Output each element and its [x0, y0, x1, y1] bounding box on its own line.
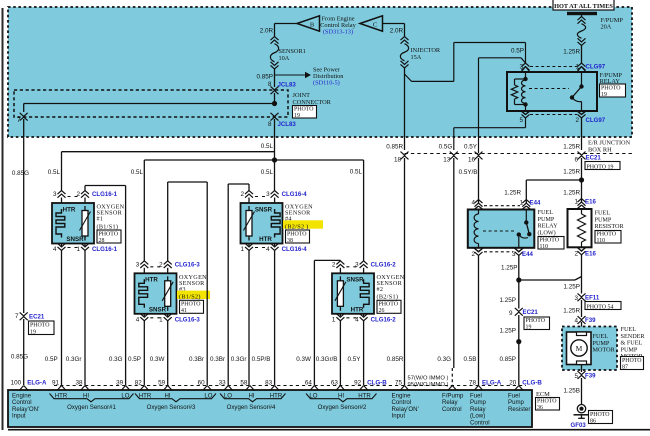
svg-text:0.5P: 0.5P	[45, 356, 58, 363]
svg-text:4: 4	[574, 317, 578, 324]
CLG97 pin 2 chevrons	[578, 114, 586, 118]
relay coil inductor	[522, 80, 526, 104]
svg-text:CLG16-3: CLG16-3	[175, 316, 201, 323]
sensor 1 top connector dashes	[68, 196, 80, 198]
label HOT AT ALL TIMES box	[553, 0, 614, 10]
svg-text:CLG16-1: CLG16-1	[92, 246, 118, 253]
sensor 3 top connector dashes	[150, 266, 161, 268]
svg-text:PHOTO: PHOTO	[99, 231, 119, 237]
svg-text:8: 8	[268, 81, 272, 88]
svg-text:CLG16-3: CLG16-3	[175, 261, 201, 268]
svg-text:91: 91	[52, 379, 60, 386]
EF11 pin 3 chevrons	[578, 293, 586, 297]
photo box 86 (ground)	[589, 411, 613, 424]
svg-text:HTR: HTR	[270, 393, 283, 400]
wire sensor3 LO staple to ECM 60	[167, 182, 169, 262]
joint connector pin 8 top chevrons	[271, 86, 279, 90]
relay low internal dashed link	[483, 230, 515, 232]
relay low coil	[478, 210, 480, 215]
sensor 4 highlight	[283, 220, 323, 228]
svg-text:PHOTO: PHOTO	[526, 318, 546, 324]
svg-text:0.3Gr: 0.3Gr	[66, 356, 82, 363]
wire sensor2 HI drop to ECM 63	[339, 321, 341, 385]
svg-text:38: 38	[75, 379, 83, 386]
svg-text:0.5B: 0.5B	[464, 356, 477, 363]
svg-text:PHOTO: PHOTO	[537, 399, 557, 405]
svg-text:(B1/S2): (B1/S2)	[179, 294, 201, 301]
svg-text:58: 58	[240, 379, 248, 386]
ECM pin 92 terminal	[359, 386, 368, 391]
svg-text:PHOTO: PHOTO	[287, 231, 307, 237]
ECM pin 33 terminal	[224, 386, 233, 391]
svg-text:LO: LO	[204, 393, 212, 400]
sensor 3 top pin 3 chevron	[140, 261, 148, 265]
sensor 2 heater element	[360, 279, 369, 308]
wire sensor3 HTR drop to ECM 82	[143, 321, 145, 385]
ECM connector dashed boundary	[54, 385, 526, 387]
svg-text:0.5L: 0.5L	[261, 169, 274, 176]
svg-text:8: 8	[268, 121, 272, 128]
svg-text:PHOTO: PHOTO	[590, 412, 610, 418]
wire resistor pin2 to motor trunk	[581, 255, 583, 294]
sensor 3 bottom pin 1 chevron	[167, 314, 169, 317]
svg-text:HTR: HTR	[259, 236, 272, 243]
svg-text:4: 4	[266, 246, 270, 253]
svg-text:Oxygen Sensor#3: Oxygen Sensor#3	[147, 404, 196, 411]
svg-text:E44: E44	[522, 251, 533, 258]
relay low switch blade	[526, 223, 529, 235]
svg-text:60: 60	[198, 379, 206, 386]
svg-text:38: 38	[287, 238, 293, 244]
sensor3 group bracket	[135, 394, 216, 402]
sensor 4 bottom pin 4 chevron	[274, 244, 276, 247]
svg-text:78: 78	[469, 379, 477, 386]
svg-text:CLG-B: CLG-B	[522, 380, 542, 387]
svg-text:0.3Br: 0.3Br	[210, 356, 225, 363]
svg-text:83: 83	[265, 379, 273, 386]
wire 0.5L feed vertical (JC8 to sensor4)	[274, 160, 276, 191]
photo box 19 (EC21-9)	[524, 317, 550, 330]
svg-text:0.85P: 0.85P	[500, 356, 516, 363]
joint connector box (dashed)	[14, 90, 288, 117]
svg-text:HI: HI	[338, 393, 344, 400]
photo box 19 (joint connector)	[293, 106, 317, 119]
svg-text:F39: F39	[585, 373, 596, 380]
svg-text:Resister: Resister	[508, 406, 530, 413]
svg-text:26: 26	[379, 308, 385, 314]
svg-text:0.5P: 0.5P	[511, 48, 524, 55]
svg-text:57(W/O IMMO ): 57(W/O IMMO )	[408, 376, 449, 382]
E44 pin3 chevron	[514, 248, 523, 252]
svg-text:HI: HI	[83, 393, 89, 400]
svg-text:#2: #2	[377, 286, 384, 293]
svg-text:18: 18	[394, 157, 402, 164]
svg-text:1.25P: 1.25P	[500, 327, 516, 334]
wire node to ECM 20	[518, 342, 520, 385]
sensor 4 top connector dashes	[255, 196, 269, 198]
wire injector fuse down to pin 18	[404, 68, 406, 151]
F39 pin 4 chevrons	[578, 316, 586, 320]
svg-text:6: 6	[574, 157, 578, 164]
wire joint connector pin7 down	[23, 119, 25, 313]
ECM pin 59 terminal	[163, 386, 172, 391]
wire sensor4 LO staple to ECM 33	[248, 184, 250, 191]
svg-text:0.5Y: 0.5Y	[464, 143, 478, 150]
wire injector branch to 0.5P feed	[405, 74, 412, 81]
svg-text:4: 4	[53, 246, 57, 253]
svg-text:CLG97: CLG97	[586, 64, 606, 71]
svg-text:HOT AT ALL TIMES: HOT AT ALL TIMES	[554, 3, 613, 10]
wire sensor2 LO staple to ECM 64	[339, 260, 341, 261]
relay coil top node	[523, 77, 527, 81]
wire EF11 to F39 pin4	[581, 300, 583, 317]
svg-text:1.25R: 1.25R	[563, 190, 580, 197]
svg-text:19: 19	[526, 324, 532, 330]
F/PUMP relay box	[507, 72, 597, 111]
svg-text:(B1/S1): (B1/S1)	[97, 223, 119, 230]
fuel pump resistor box	[568, 209, 592, 247]
svg-text:82: 82	[135, 379, 143, 386]
E44 pin4 chevron	[475, 200, 483, 204]
relay internal dashed link	[529, 88, 569, 90]
junction relay low output node	[516, 277, 521, 282]
ground GF03 symbol	[577, 405, 585, 413]
svg-text:LO: LO	[121, 393, 129, 400]
photo box 28 (sensor 1)	[97, 230, 121, 243]
svg-text:HTR: HTR	[139, 393, 152, 400]
wire pin16 to fuel pump relay low pin4	[478, 158, 480, 204]
svg-text:2: 2	[575, 117, 579, 124]
sensor 4 sensing element	[248, 206, 250, 211]
sensor 1 top pin 2 chevron	[81, 191, 89, 195]
relay switch blade	[572, 87, 582, 98]
photo box 87 (motor)	[621, 357, 644, 370]
photo box 110 (resistor)	[595, 231, 621, 244]
svg-text:1.25R: 1.25R	[563, 143, 580, 150]
oxygen sensor #4 box	[241, 203, 283, 244]
ECM pin 20 terminal	[514, 386, 523, 391]
svg-text:87: 87	[622, 364, 628, 370]
sensor2 group bracket	[306, 394, 377, 402]
E/R junction box dashed boundary	[405, 153, 633, 155]
sensor 2 bottom pin 1 chevron	[339, 314, 341, 317]
wire fuse SENSOR1 to joint connector pin 8	[274, 69, 276, 88]
svg-text:0.5L: 0.5L	[350, 169, 363, 176]
svg-text:86: 86	[590, 418, 596, 424]
wire sensor3 HI drop to ECM 59	[167, 321, 169, 385]
svg-text:2: 2	[240, 191, 244, 198]
wire F39-5 to ground	[581, 378, 583, 404]
svg-text:28: 28	[99, 238, 105, 244]
ECM pin 38 terminal	[81, 386, 90, 391]
svg-text:0.5Y/B: 0.5Y/B	[459, 169, 478, 176]
svg-text:3: 3	[53, 191, 57, 198]
svg-text:2.0R: 2.0R	[390, 28, 404, 35]
sensor 4 heater element	[271, 209, 280, 238]
svg-text:EF11: EF11	[585, 295, 600, 302]
svg-text:7: 7	[17, 117, 21, 124]
wire from triangle B to sensor fuse	[275, 23, 298, 25]
relay low connector top dashes	[484, 205, 520, 207]
svg-text:EC21: EC21	[586, 155, 602, 162]
svg-text:1.25R: 1.25R	[563, 169, 580, 176]
svg-text:C: C	[373, 22, 377, 29]
svg-text:SNSR: SNSR	[149, 306, 167, 313]
svg-text:PHOTO: PHOTO	[379, 302, 399, 308]
svg-text:CLG16-1: CLG16-1	[92, 191, 118, 198]
junction 1.25R node	[579, 177, 584, 182]
see power distribution tap	[275, 74, 306, 76]
sensor 2 top pin 2 chevron	[336, 261, 344, 265]
fuel pump motor terminal bottom	[577, 361, 587, 365]
sensor 2 top pin 3 chevron	[360, 261, 368, 265]
svg-text:HTR: HTR	[63, 206, 76, 213]
sensor 2 sensing element	[339, 276, 341, 281]
svg-text:F39: F39	[585, 317, 596, 324]
svg-text:HTR: HTR	[145, 277, 158, 284]
sensor 3 sensing element	[167, 276, 169, 281]
wire relay low pin3 to junction	[518, 256, 520, 281]
sensor 1 sensing element	[84, 206, 86, 211]
wire relay pin5 to EC21 pin13	[525, 118, 527, 128]
wire relay pin2 down to EC21 pin 6	[581, 118, 583, 150]
svg-text:SNSR: SNSR	[346, 277, 364, 284]
wire F39-4 into motor box	[581, 322, 583, 332]
relay switch common wire	[581, 72, 583, 86]
svg-text:19: 19	[601, 92, 607, 98]
svg-text:5: 5	[574, 373, 578, 380]
svg-text:PHOTO 54: PHOTO 54	[587, 304, 614, 310]
svg-text:63: 63	[331, 379, 339, 386]
svg-text:Input: Input	[392, 413, 406, 420]
ECM pin 78 terminal	[474, 386, 483, 391]
svg-text:4: 4	[471, 200, 475, 207]
svg-text:RESISTOR: RESISTOR	[595, 223, 625, 230]
svg-text:(B2/S2 ): (B2/S2 )	[285, 223, 309, 230]
svg-text:2: 2	[574, 250, 578, 257]
svg-text:20: 20	[509, 379, 517, 386]
CLG97 pin 1 chevrons	[578, 63, 586, 67]
svg-text:(SD313-13): (SD313-13)	[323, 28, 353, 35]
svg-text:7: 7	[15, 313, 19, 320]
svg-text:0.85G: 0.85G	[11, 353, 28, 360]
wire joint connector pin8 to band edge	[274, 119, 276, 160]
svg-text:E16: E16	[585, 199, 596, 206]
svg-text:1.25P: 1.25P	[564, 284, 580, 291]
svg-text:Oxygen Sensor#4: Oxygen Sensor#4	[227, 404, 276, 411]
E16 pin1 chevron	[578, 199, 586, 203]
svg-text:1.25P: 1.25P	[501, 265, 517, 272]
relay switch throw link	[572, 98, 582, 102]
svg-text:Control: Control	[442, 406, 462, 413]
wire sensor2 HTR drop to ECM 92	[363, 321, 365, 385]
svg-text:(B2/S1): (B2/S1)	[377, 294, 399, 301]
sensor 4 top pin 2 chevron	[245, 191, 253, 195]
page left edge line	[2, 8, 4, 430]
E44 pin2 chevron	[474, 248, 483, 252]
svg-text:3: 3	[266, 191, 270, 198]
EC21 pin 9 chevrons	[515, 308, 523, 312]
ECM pin 57/95 terminal (W/O IMMO)	[448, 386, 457, 391]
svg-text:0.3Gr/B: 0.3Gr/B	[316, 356, 338, 363]
svg-text:1.25R: 1.25R	[563, 49, 580, 56]
relay low connector bottom dashes	[484, 251, 513, 253]
relay low switch pole	[517, 232, 521, 236]
svg-text:PHOTO 19: PHOTO 19	[587, 164, 614, 170]
ECM pin 63 terminal	[336, 386, 345, 391]
node fuel pump sense	[516, 339, 521, 344]
svg-text:4: 4	[136, 316, 140, 323]
E44 pin1 chevron	[522, 200, 530, 204]
svg-text:LO: LO	[309, 393, 317, 400]
connector CLG97 bottom dashed line	[530, 114, 577, 116]
connector triangle C (from engine control relay)	[360, 16, 383, 31]
svg-text:LO: LO	[224, 393, 232, 400]
svg-text:PHOTO: PHOTO	[294, 107, 314, 113]
svg-text:EC21: EC21	[523, 309, 539, 316]
wire junction to EC21 pin 9	[518, 280, 520, 309]
svg-text:3: 3	[574, 295, 578, 302]
ECM pin 100 terminal	[19, 386, 28, 391]
wire sensor1 LO staple to ECM 39	[84, 186, 86, 192]
photo box 41 (sensor 3)	[180, 300, 204, 313]
sensor 3 bottom connector dashes	[150, 317, 161, 319]
sensor 1 bottom pin 1 chevron	[84, 244, 86, 247]
sensor 1 bottom pin 4 chevron	[61, 244, 63, 247]
ECM pin 58 terminal	[245, 386, 254, 391]
svg-text:0.3Gr: 0.3Gr	[231, 356, 247, 363]
wire bus bar to fuse	[581, 15, 583, 17]
svg-text:3: 3	[136, 261, 140, 268]
svg-text:15A: 15A	[411, 54, 422, 61]
relay coil bottom node	[523, 102, 527, 106]
sensor 1 heater element	[56, 209, 65, 238]
oxygen sensor #3 box	[135, 273, 177, 314]
svg-text:19: 19	[294, 113, 300, 119]
svg-text:ELG-A: ELG-A	[27, 380, 47, 387]
wire EC21 pin7 to ECM 100	[23, 319, 25, 385]
svg-text:CLG16-2: CLG16-2	[371, 261, 397, 268]
CLG97 pin 5 chevrons	[522, 114, 530, 118]
svg-text:HTR: HTR	[351, 306, 364, 313]
wire EC21-6 to junction	[581, 158, 583, 203]
svg-text:41: 41	[181, 308, 187, 314]
sensor 1 top pin 3 chevron	[58, 191, 66, 195]
photo box 19 (f/pump relay)	[600, 84, 626, 97]
svg-text:0.85R: 0.85R	[387, 356, 404, 363]
relay low switch contact top	[524, 220, 528, 224]
svg-text:0.5G: 0.5G	[439, 143, 453, 150]
EC21 pin 7 chevrons	[20, 312, 28, 316]
fuel pump motor M circle	[571, 340, 587, 356]
svg-text:BOX RH: BOX RH	[588, 146, 612, 153]
wire sensor4 HTR drop to ECM 83	[274, 251, 276, 386]
svg-text:PHOTO: PHOTO	[540, 238, 560, 244]
sensor1 group bracket	[50, 394, 134, 402]
connector CLG97 top dashed line	[530, 66, 577, 68]
svg-text:CLG16-2: CLG16-2	[371, 316, 397, 323]
fuel pump motor terminal top	[577, 332, 587, 336]
sensor4 group bracket	[220, 394, 286, 402]
svg-text:1: 1	[332, 316, 336, 323]
joint connector pin 7 chevrons	[20, 113, 28, 117]
svg-text:JCL83: JCL83	[278, 121, 297, 128]
photo box 19 (EC21-6)	[585, 162, 620, 170]
svg-text:E16: E16	[585, 250, 596, 257]
wire from triangle C to injector fuse	[383, 23, 405, 25]
svg-text:59: 59	[158, 379, 166, 386]
svg-text:CLG16-4: CLG16-4	[282, 191, 308, 198]
svg-text:HI: HI	[164, 393, 170, 400]
fuse SENSOR1 10A	[271, 37, 279, 41]
wire junction to relay low pin1	[526, 179, 581, 181]
relay pin3 entry fork	[521, 67, 530, 73]
relay coil feed wire	[525, 72, 527, 79]
svg-text:PHOTO: PHOTO	[622, 358, 642, 364]
svg-text:1.25R: 1.25R	[563, 307, 580, 314]
svg-text:64: 64	[305, 379, 313, 386]
svg-text:Oxygen Sensor#2: Oxygen Sensor#2	[318, 404, 367, 411]
sensor 2 bottom pin 4 chevron	[363, 314, 365, 317]
sensor 3 top pin 2 chevron	[164, 261, 172, 265]
relay low switch contact right	[527, 232, 531, 236]
svg-text:0.3Br: 0.3Br	[189, 356, 204, 363]
svg-text:1.25R: 1.25R	[504, 190, 521, 197]
svg-text:19: 19	[30, 329, 36, 335]
wire EC21-9 to node	[518, 315, 520, 342]
relay switch contact bottom	[570, 95, 574, 99]
svg-text:Input: Input	[12, 413, 26, 420]
svg-text:110: 110	[597, 238, 606, 244]
svg-text:0.5P: 0.5P	[128, 356, 141, 363]
svg-text:Oxygen Sensor#1: Oxygen Sensor#1	[67, 404, 116, 411]
svg-text:HI: HI	[248, 393, 254, 400]
svg-text:CLG97: CLG97	[586, 117, 606, 124]
svg-text:JCL83: JCL83	[278, 81, 297, 88]
wire 0.5L bus junction	[272, 157, 277, 162]
svg-text:2: 2	[471, 251, 475, 258]
sensor 2 bottom connector dashes	[346, 317, 357, 319]
svg-text:SNSR: SNSR	[66, 236, 84, 243]
svg-text:16: 16	[468, 157, 476, 164]
page bottom border line	[8, 429, 650, 431]
svg-text:0.3G: 0.3G	[437, 356, 451, 363]
wire 0.5P to main relay pin 3	[454, 42, 526, 44]
oxygen sensor #2 box	[332, 273, 374, 314]
svg-text:CLG16-4: CLG16-4	[282, 246, 308, 253]
EC21 pin 13 chevrons	[450, 152, 458, 156]
svg-text:0.85G: 0.85G	[12, 170, 29, 177]
photo box 54 (EF11)	[585, 302, 621, 310]
svg-text:39: 39	[116, 379, 124, 386]
svg-text:MOTOR: MOTOR	[593, 347, 616, 354]
joint connector pin 8 bottom chevrons	[271, 113, 279, 117]
svg-text:0.3W: 0.3W	[296, 356, 311, 363]
svg-text:0.5Y: 0.5Y	[348, 356, 362, 363]
sensor 3 bottom pin 4 chevron	[143, 314, 145, 317]
sensor 4 bottom connector dashes	[255, 247, 269, 249]
E16 pin2 chevron	[577, 247, 586, 251]
svg-text:CONNECTOR: CONNECTOR	[293, 99, 332, 106]
wire pin13 down (0.5G)	[453, 158, 455, 368]
svg-text:1.25B: 1.25B	[564, 388, 580, 395]
EC21 pin 18 chevrons	[401, 152, 409, 156]
svg-text:10A: 10A	[279, 55, 290, 62]
svg-text:20A: 20A	[601, 23, 612, 30]
svg-text:0.3W: 0.3W	[150, 356, 165, 363]
EC21 pin 6 chevrons	[578, 152, 586, 156]
svg-text:0.3G: 0.3G	[109, 356, 123, 363]
